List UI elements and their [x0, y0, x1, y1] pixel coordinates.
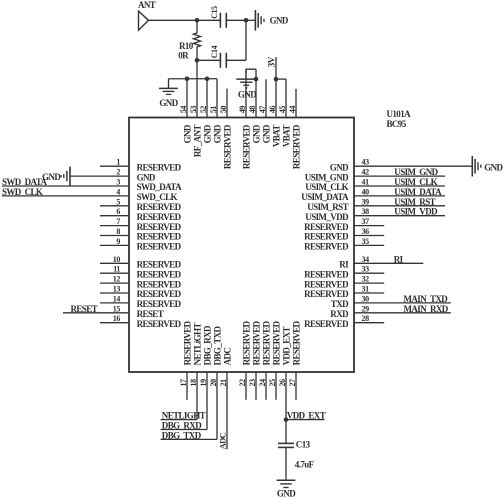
capacitor C13 plates: [278, 442, 294, 444]
power 3V wire: [275, 57, 277, 79]
svg-text:39: 39: [362, 197, 370, 206]
svg-text:8: 8: [116, 227, 120, 236]
pin 36 (RESERVED) wire: [354, 235, 384, 237]
pin 44 (RESERVED) wire: [295, 89, 297, 118]
capacitor C14 plates: [219, 53, 221, 68]
svg-text:USIM_GND: USIM_GND: [394, 167, 438, 177]
svg-text:50: 50: [219, 106, 228, 114]
svg-text:RESERVED: RESERVED: [137, 222, 182, 232]
pin 45 (VBAT) wire: [285, 79, 287, 117]
svg-text:USIM_CLK: USIM_CLK: [394, 177, 437, 187]
svg-text:29: 29: [362, 304, 370, 313]
capacitor C15 plates: [219, 13, 221, 28]
svg-text:MAIN_RXD: MAIN_RXD: [404, 304, 449, 314]
pin 15 (RESET) wire: [63, 312, 129, 314]
svg-text:RESERVED: RESERVED: [304, 269, 349, 279]
svg-text:C14: C14: [210, 46, 219, 59]
pin 32 (RESERVED) wire: [354, 282, 384, 284]
svg-text:GND: GND: [159, 98, 178, 108]
svg-text:DBG_TXD: DBG_TXD: [212, 325, 222, 365]
svg-text:U101A: U101A: [387, 109, 412, 119]
pin 8 (RESERVED) wire: [100, 235, 129, 237]
svg-text:USIM_DATA: USIM_DATA: [301, 192, 349, 202]
pin 18 (NETLiGHT) wire: [196, 372, 198, 420]
pin 54 (GND) wire: [186, 79, 188, 118]
junction VDD_EXT: [284, 417, 289, 422]
svg-text:RESERVED: RESERVED: [304, 289, 349, 299]
svg-text:24: 24: [258, 379, 267, 387]
svg-text:22: 22: [238, 379, 247, 387]
antenna ANT symbol: [139, 11, 149, 30]
svg-text:USIM_VDD: USIM_VDD: [305, 212, 349, 222]
node B junction: [244, 18, 249, 23]
svg-text:51: 51: [209, 106, 218, 114]
svg-text:49: 49: [238, 106, 247, 114]
pin 7 (RESERVED) wire: [100, 225, 129, 227]
svg-text:RESERVED: RESERVED: [137, 289, 182, 299]
svg-text:GND: GND: [202, 124, 212, 143]
pin 21 (ADC) wire: [226, 372, 228, 449]
wire DBG_TXD: [161, 438, 217, 440]
svg-text:RESERVED: RESERVED: [304, 242, 349, 252]
svg-text:28: 28: [362, 314, 370, 323]
capacitor C15 right wire: [226, 19, 246, 21]
svg-text:RESERVED: RESERVED: [304, 232, 349, 242]
svg-text:RESERVED: RESERVED: [271, 320, 281, 365]
wire pin46-pin45: [276, 78, 286, 80]
svg-text:USIM_RST: USIM_RST: [394, 197, 435, 207]
svg-text:2: 2: [116, 168, 120, 177]
svg-text:BC95: BC95: [387, 119, 407, 129]
junction at pin 48: [254, 77, 259, 82]
svg-text:53: 53: [189, 106, 198, 114]
svg-text:52: 52: [199, 106, 208, 114]
svg-text:43: 43: [362, 158, 370, 167]
svg-text:NETLIGHT: NETLIGHT: [162, 410, 206, 420]
svg-text:21: 21: [219, 379, 228, 387]
pin 12 (RESERVED) wire: [100, 282, 129, 284]
pin 1 (RESERVED) wire: [100, 165, 129, 167]
wire pin49-pin48 bridge: [246, 69, 256, 79]
pin 40 (USIM_DATA) wire: [354, 195, 445, 197]
svg-text:GND: GND: [261, 124, 271, 143]
pin 53 (RF_ANT) wire: [196, 60, 198, 117]
ground bottom: [277, 479, 296, 481]
svg-text:9: 9: [116, 237, 120, 246]
pin 39 (USIM_RST) wire: [354, 205, 445, 207]
svg-text:18: 18: [189, 379, 198, 387]
svg-text:5: 5: [116, 197, 120, 206]
svg-text:54: 54: [179, 106, 188, 114]
svg-text:GND: GND: [212, 124, 222, 143]
svg-text:DBG_RXD: DBG_RXD: [202, 325, 212, 365]
pin 52 (GND) wire: [206, 79, 208, 118]
svg-text:SWD_CLK: SWD_CLK: [2, 187, 43, 197]
pin 26 (VDD_EXT) wire: [285, 372, 287, 443]
pin 9 (RESERVED) wire: [100, 244, 129, 246]
svg-text:27: 27: [288, 379, 297, 387]
svg-text:RESERVED: RESERVED: [222, 124, 232, 169]
svg-text:15: 15: [113, 304, 121, 313]
svg-text:ADC: ADC: [217, 432, 227, 449]
pin 51 (GND) wire: [216, 79, 218, 118]
svg-text:RESERVED: RESERVED: [304, 222, 349, 232]
ground top-right rake: [240, 81, 252, 83]
pin 33 (RESERVED) wire: [354, 272, 384, 274]
pin 3 (SWD_DATA) wire: [2, 185, 129, 187]
wire C14 up to node B: [245, 20, 247, 60]
svg-text:23: 23: [248, 379, 257, 387]
pin 19 (DBG_RXD) wire: [206, 372, 208, 430]
svg-text:SWD_CLK: SWD_CLK: [137, 192, 178, 202]
svg-text:RESERVED: RESERVED: [182, 320, 192, 365]
svg-text:GND: GND: [238, 90, 257, 100]
svg-text:RESERVED: RESERVED: [137, 269, 182, 279]
pin 14 (RESERVED) wire: [100, 302, 129, 304]
svg-text:GND: GND: [182, 124, 192, 143]
svg-text:GND: GND: [484, 163, 503, 173]
svg-text:11: 11: [113, 265, 120, 274]
svg-text:RESERVED: RESERVED: [137, 260, 182, 270]
svg-text:38: 38: [362, 207, 370, 216]
svg-text:6: 6: [116, 207, 120, 216]
pin 25 (RESERVED) wire: [275, 372, 277, 400]
pin 30 (TXD) wire: [354, 302, 451, 304]
svg-text:VBAT: VBAT: [271, 125, 281, 148]
pin 28 (RESERVED) wire: [354, 322, 384, 324]
svg-text:RESET: RESET: [71, 304, 98, 314]
pin 2 (GND) wire: [70, 175, 129, 177]
svg-text:VBAT: VBAT: [281, 125, 291, 148]
pin 17 (RESERVED) wire: [186, 372, 188, 400]
svg-text:37: 37: [362, 217, 370, 226]
svg-text:USIM_CLK: USIM_CLK: [305, 182, 348, 192]
svg-text:GND: GND: [277, 489, 296, 499]
pin 10 (RESERVED) wire: [100, 262, 129, 264]
svg-text:RXD: RXD: [330, 309, 349, 319]
pin 6 (RESERVED) wire: [100, 215, 129, 217]
junction at pin 46: [274, 77, 279, 82]
svg-text:RESERVED: RESERVED: [137, 162, 182, 172]
svg-text:RESERVED: RESERVED: [137, 202, 182, 212]
svg-text:16: 16: [113, 314, 121, 323]
svg-text:USIM_DATA: USIM_DATA: [394, 187, 442, 197]
svg-text:4: 4: [116, 187, 120, 196]
ground top-right bar: [236, 78, 256, 80]
svg-text:GND: GND: [42, 172, 61, 182]
pin 43 (GND) wire: [354, 165, 472, 167]
svg-text:ADC: ADC: [222, 348, 232, 366]
junction at pin 52: [205, 76, 210, 81]
svg-text:GND: GND: [270, 16, 289, 26]
wire DBG_RXD: [161, 429, 207, 431]
svg-text:GND: GND: [251, 124, 261, 143]
pin 49 (RESERVED) wire: [245, 69, 247, 117]
capacitor C14 right wire: [226, 59, 246, 61]
pin 29 (RXD) wire: [354, 312, 451, 314]
pin 13 (RESERVED) wire: [100, 292, 129, 294]
svg-text:R10: R10: [179, 41, 194, 51]
svg-text:C15: C15: [210, 6, 219, 19]
svg-text:35: 35: [362, 237, 370, 246]
svg-text:RI: RI: [339, 260, 349, 270]
svg-text:RESERVED: RESERVED: [291, 124, 301, 169]
svg-text:RESERVED: RESERVED: [241, 124, 251, 169]
svg-text:7: 7: [116, 217, 120, 226]
svg-text:RESERVED: RESERVED: [291, 320, 301, 365]
svg-text:31: 31: [362, 285, 370, 294]
svg-text:RESERVED: RESERVED: [137, 242, 182, 252]
svg-text:RESERVED: RESERVED: [304, 279, 349, 289]
svg-text:RESERVED: RESERVED: [137, 212, 182, 222]
svg-text:RESERVED: RESERVED: [261, 320, 271, 365]
svg-text:48: 48: [248, 106, 257, 114]
pin 46 (VBAT) wire: [275, 79, 277, 117]
pin 42 (USIM_GND) wire: [354, 175, 445, 177]
svg-text:44: 44: [288, 106, 297, 114]
svg-text:TXD: TXD: [331, 299, 349, 309]
svg-text:12: 12: [113, 275, 121, 284]
junction at pin 54: [185, 76, 190, 81]
svg-text:40: 40: [362, 187, 370, 196]
svg-text:46: 46: [268, 106, 277, 114]
svg-text:0R: 0R: [178, 51, 189, 61]
svg-text:NETLiGHT: NETLiGHT: [192, 323, 202, 366]
ground at pin 43: [471, 156, 473, 177]
svg-text:4.7uF: 4.7uF: [295, 460, 315, 470]
svg-text:RESERVED: RESERVED: [304, 319, 349, 329]
pin 47 (GND) wire: [265, 79, 267, 117]
wire C13 to ground: [285, 447, 287, 480]
IC U101A BC95 body: [129, 118, 354, 373]
svg-text:USIM_RST: USIM_RST: [307, 202, 348, 212]
svg-text:SWD_DATA: SWD_DATA: [2, 177, 47, 187]
svg-text:36: 36: [362, 227, 370, 236]
svg-text:25: 25: [268, 379, 277, 387]
pin 41 (USIM_CLK) wire: [354, 185, 445, 187]
svg-text:RESERVED: RESERVED: [251, 320, 261, 365]
svg-text:17: 17: [179, 379, 188, 387]
svg-text:20: 20: [209, 379, 218, 387]
node C junction: [195, 58, 200, 63]
svg-text:19: 19: [199, 379, 208, 387]
pin 34 (RI) wire: [354, 262, 423, 264]
pin 31 (RESERVED) wire: [354, 292, 384, 294]
wire VDD_EXT underline: [286, 419, 325, 421]
svg-text:RESERVED: RESERVED: [137, 279, 182, 289]
ground top-left: [159, 87, 178, 89]
svg-text:30: 30: [362, 294, 370, 303]
pin 11 (RESERVED) wire: [100, 272, 129, 274]
capacitor C14 left wire: [197, 59, 220, 61]
svg-text:1: 1: [116, 158, 120, 167]
svg-text:14: 14: [113, 294, 121, 303]
wire NETLIGHT: [161, 419, 197, 421]
svg-text:41: 41: [362, 178, 370, 187]
svg-text:RESERVED: RESERVED: [241, 320, 251, 365]
svg-text:MAIN_TXD: MAIN_TXD: [404, 294, 449, 304]
pin 38 (USIM_VDD) wire: [354, 215, 445, 217]
svg-text:ANT: ANT: [138, 0, 156, 10]
svg-text:10: 10: [113, 255, 121, 264]
svg-text:SWD_DATA: SWD_DATA: [137, 182, 182, 192]
resistor R10 body: [193, 20, 200, 60]
ground after C15: [254, 10, 256, 31]
pin 4 (SWD_CLK) wire: [2, 195, 129, 197]
svg-text:3V: 3V: [266, 56, 276, 67]
svg-text:3: 3: [116, 178, 120, 187]
svg-text:42: 42: [362, 168, 370, 177]
svg-text:32: 32: [362, 275, 370, 284]
pin 35 (RESERVED) wire: [354, 244, 384, 246]
svg-text:RF_ANT: RF_ANT: [192, 125, 202, 157]
wire node B to ground: [246, 19, 255, 21]
svg-text:45: 45: [278, 106, 287, 114]
svg-text:RESERVED: RESERVED: [137, 319, 182, 329]
svg-text:VDD_EXT: VDD_EXT: [281, 326, 291, 365]
pin 16 (RESERVED) wire: [100, 322, 129, 324]
pin 5 (RESERVED) wire: [100, 205, 129, 207]
svg-text:33: 33: [362, 265, 370, 274]
svg-text:26: 26: [278, 379, 287, 387]
wire ground stub: [168, 79, 170, 89]
pin 24 (RESERVED) wire: [265, 372, 267, 400]
svg-text:C13: C13: [296, 439, 311, 449]
pin 27 (RESERVED) wire: [295, 372, 297, 400]
svg-text:13: 13: [113, 285, 121, 294]
svg-text:DBG_RXD: DBG_RXD: [162, 420, 202, 430]
pin 23 (RESERVED) wire: [255, 372, 257, 400]
pin 37 (RESERVED) wire: [354, 225, 384, 227]
svg-text:34: 34: [362, 255, 370, 264]
pin 22 (RESERVED) wire: [245, 372, 247, 400]
svg-text:USIM_GND: USIM_GND: [305, 172, 349, 182]
svg-text:RI: RI: [394, 254, 404, 264]
node A junction: [195, 18, 200, 23]
wire GND bus to pins 54 52 51: [169, 78, 218, 80]
wire ANT to node A: [149, 19, 198, 21]
svg-text:USIM_VDD: USIM_VDD: [394, 207, 438, 217]
pin 48 (GND) wire: [255, 69, 257, 117]
capacitor C15 left wire: [197, 19, 220, 21]
svg-text:RESERVED: RESERVED: [137, 232, 182, 242]
svg-text:DBG_TXD: DBG_TXD: [162, 430, 202, 440]
pin 50 (RESERVED) wire: [226, 89, 228, 118]
svg-text:RESERVED: RESERVED: [137, 299, 182, 309]
svg-text:GND: GND: [330, 162, 349, 172]
pin 20 (DBG_TXD) wire: [216, 372, 218, 439]
svg-text:RESET: RESET: [137, 309, 164, 319]
ground at pin 2: [69, 167, 71, 186]
svg-text:47: 47: [258, 106, 267, 114]
svg-text:VDD_EXT: VDD_EXT: [287, 410, 326, 420]
svg-text:GND: GND: [137, 172, 156, 182]
